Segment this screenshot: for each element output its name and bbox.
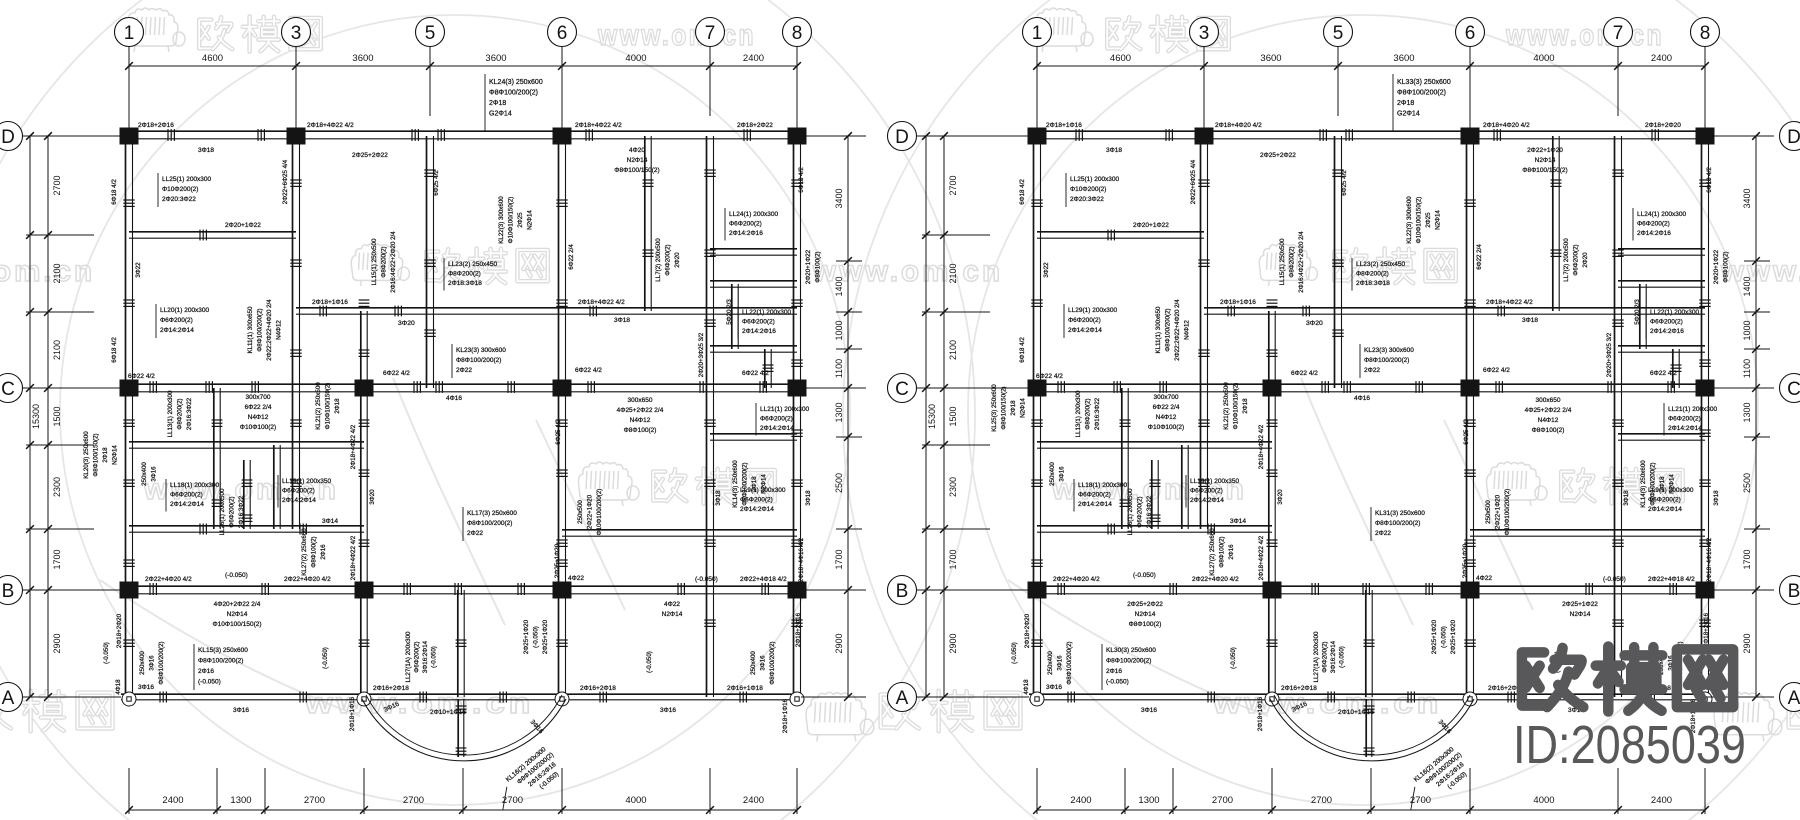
svg-text:2Φ22+6Φ25 4/4: 2Φ22+6Φ25 4/4 (282, 159, 289, 204)
beam grid 1 (125, 132, 127, 697)
svg-text:8: 8 (792, 23, 803, 44)
svg-text:2Φ18+4Φ22 4/2: 2Φ18+4Φ22 4/2 (350, 535, 357, 580)
svg-text:Φ8Φ100/200(2): Φ8Φ100/200(2) (1165, 308, 1172, 351)
svg-text:Φ6Φ200(2): Φ6Φ200(2) (1190, 488, 1223, 495)
svg-text:250x400: 250x400 (1047, 651, 1054, 675)
svg-text:2400: 2400 (743, 795, 764, 806)
grid bubble 7 (696, 18, 725, 47)
column at (129,590) (1028, 582, 1047, 599)
svg-text:Φ8Φ100/150(2): Φ8Φ100/150(2) (1522, 167, 1567, 174)
watermark tiles (125, 8, 757, 52)
svg-text:LL21(1) 200x300: LL21(1) 200x300 (1668, 406, 1718, 413)
svg-text:2Φ20+1Φ22: 2Φ20+1Φ22 (1133, 222, 1169, 229)
svg-text:B: B (2, 581, 15, 602)
svg-text:Φ8Φ100(2): Φ8Φ100(2) (1723, 251, 1730, 282)
svg-text:KL17(3) 250x600: KL17(3) 250x600 (467, 510, 517, 517)
svg-text:KL11(1) 300x650: KL11(1) 300x650 (247, 306, 254, 354)
svg-text:Φ10Φ100/200(2): Φ10Φ100/200(2) (596, 489, 603, 536)
grid line 5 stem (1337, 47, 1339, 117)
svg-text:2Φ20: 2Φ20 (1582, 252, 1589, 268)
beam grid C (1029, 383, 1709, 385)
svg-text:1000: 1000 (834, 320, 844, 340)
column at (562,388) (553, 380, 572, 397)
svg-text:Φ8Φ100/200(2): Φ8Φ100/200(2) (769, 641, 776, 684)
svg-text:1: 1 (1032, 23, 1043, 44)
svg-text:2Φ25+1Φ20: 2Φ25+1Φ20 (554, 543, 561, 578)
beam x277 (1181, 445, 1183, 529)
svg-text:(-0.050): (-0.050) (198, 679, 221, 686)
svg-text:B: B (896, 581, 909, 602)
svg-text:KL20(3) 250x600: KL20(3) 250x600 (83, 431, 90, 479)
svg-text:2Φ18+2Φ16: 2Φ18+2Φ16 (795, 612, 802, 647)
svg-text:250x400: 250x400 (1049, 462, 1056, 486)
svg-text:Φ10Φ100/150(2): Φ10Φ100/150(2) (325, 383, 332, 430)
svg-text:2Φ18: 2Φ18 (1397, 100, 1414, 107)
svg-text:3Φ20: 3Φ20 (1306, 320, 1323, 327)
svg-text:5Φ20 2/3: 5Φ20 2/3 (1634, 299, 1641, 325)
svg-text:3Φ22: 3Φ22 (1043, 262, 1050, 278)
svg-text:2Φ18+4Φ22 4/2: 2Φ18+4Φ22 4/2 (1258, 535, 1265, 580)
grid line 1 stem (128, 47, 130, 132)
svg-text:1100: 1100 (1742, 359, 1752, 378)
svg-text:LL22(1) 200x300: LL22(1) 200x300 (742, 309, 792, 316)
column at (364,388) (1263, 380, 1282, 397)
svg-text:Φ6Φ200(2): Φ6Φ200(2) (740, 497, 773, 504)
svg-text:1300: 1300 (1742, 402, 1752, 422)
svg-text:6Φ18 4/2: 6Φ18 4/2 (798, 167, 805, 193)
top dimension line (129, 65, 797, 67)
svg-text:Φ6Φ200(2): Φ6Φ200(2) (282, 488, 315, 495)
svg-text:Φ6Φ200(2): Φ6Φ200(2) (414, 641, 421, 672)
svg-text:2Φ22+1Φ20: 2Φ22+1Φ20 (1495, 494, 1502, 529)
svg-text:2Φ14:2Φ16: 2Φ14:2Φ16 (742, 328, 776, 335)
svg-text:2Φ22+6Φ25 4/4: 2Φ22+6Φ25 4/4 (1190, 159, 1197, 204)
svg-text:A: A (1788, 688, 1800, 709)
svg-text:(-0.050): (-0.050) (1441, 626, 1448, 648)
svg-text:2Φ18+4Φ16 4/2: 2Φ18+4Φ16 4/2 (1706, 537, 1713, 582)
grid bubble A (0, 683, 23, 712)
svg-text:3Φ18: 3Φ18 (1106, 147, 1122, 154)
beam y445 (1037, 441, 1272, 443)
column at (296,136) (287, 128, 306, 145)
svg-text:(-0.050): (-0.050) (1133, 572, 1156, 579)
svg-text:2Φ20+1Φ22: 2Φ20+1Φ22 (225, 222, 261, 229)
svg-text:Φ6Φ200(2): Φ6Φ200(2) (1668, 416, 1701, 423)
svg-text:LL9(1) 200x300: LL9(1) 200x300 (740, 487, 786, 494)
svg-text:Φ8Φ100/200(2): Φ8Φ100/200(2) (1066, 641, 1073, 684)
svg-text:6Φ18 4/2: 6Φ18 4/2 (1019, 179, 1026, 205)
beam grid 7 (706, 136, 708, 697)
svg-text:1000: 1000 (1742, 320, 1752, 340)
svg-text:2Φ18+1Φ16: 2Φ18+1Φ16 (1220, 299, 1256, 306)
svg-text:6: 6 (557, 23, 568, 44)
column at (364,590) (1263, 582, 1282, 599)
svg-text:2100: 2100 (948, 340, 958, 360)
svg-text:3Φ18: 3Φ18 (715, 490, 722, 506)
svg-text:6Φ22 2/4: 6Φ22 2/4 (1153, 404, 1180, 411)
beam x247 (1151, 460, 1153, 529)
svg-text:4600: 4600 (1110, 53, 1131, 64)
svg-text:2Φ16:4Φ22+2Φ20 2/4: 2Φ16:4Φ22+2Φ20 2/4 (1298, 231, 1305, 293)
svg-text:Φ8Φ100/200(2): Φ8Φ100/200(2) (1106, 658, 1151, 665)
svg-text:2Φ22: 2Φ22 (1364, 367, 1380, 374)
beam x648 (1552, 136, 1554, 311)
svg-text:1300: 1300 (1138, 795, 1159, 806)
beam y235 (129, 231, 296, 233)
beam y311 (1204, 307, 1705, 309)
column at (797,388) (788, 380, 807, 397)
column at (129,388) (120, 380, 139, 397)
svg-text:(-0.050): (-0.050) (431, 646, 438, 668)
svg-text:Φ8Φ200(2): Φ8Φ200(2) (177, 398, 184, 429)
svg-text:Φ6Φ200(2): Φ6Φ200(2) (170, 492, 203, 499)
grid bubble 1 (115, 18, 144, 47)
left dim chain (943, 136, 945, 697)
svg-text:N2Φ14: N2Φ14 (1570, 611, 1591, 618)
svg-text:C: C (1787, 379, 1800, 400)
svg-text:LL7(2) 200x500: LL7(2) 200x500 (1563, 238, 1570, 282)
svg-text:6Φ18 4/2: 6Φ18 4/2 (1706, 167, 1713, 193)
svg-text:4000: 4000 (1533, 795, 1554, 806)
beam y284 (1618, 280, 1705, 282)
pile circle at (129,A) (1030, 692, 1044, 706)
grid line 3 stem (295, 47, 297, 132)
svg-text:2Φ18+1Φ16: 2Φ18+1Φ16 (1257, 696, 1264, 731)
svg-text:Φ10Φ100/150(2): Φ10Φ100/150(2) (212, 621, 261, 628)
svg-text:3Φ18: 3Φ18 (1522, 317, 1538, 324)
svg-text:1700: 1700 (1742, 549, 1752, 569)
svg-text:2100: 2100 (948, 263, 958, 283)
beam grid 3 (1200, 136, 1202, 529)
svg-text:3Φ16: 3Φ16 (1059, 466, 1066, 482)
svg-text:2Φ22:2Φ22+4Φ20 2/4: 2Φ22:2Φ22+4Φ20 2/4 (266, 299, 273, 361)
svg-text:3Φ14: 3Φ14 (322, 518, 338, 525)
svg-text:Φ8Φ100(2): Φ8Φ100(2) (1532, 427, 1565, 434)
svg-text:Φ8Φ100/200(2): Φ8Φ100/200(2) (198, 658, 243, 665)
svg-text:KL23(3) 300x600: KL23(3) 300x600 (456, 347, 506, 354)
svg-text:1700: 1700 (834, 549, 844, 569)
svg-text:3Φ18: 3Φ18 (1623, 490, 1630, 506)
svg-text:8: 8 (1700, 23, 1711, 44)
svg-text:Φ8Φ100/150(2): Φ8Φ100/150(2) (614, 167, 659, 174)
beam x768 (1672, 349, 1674, 388)
grid bubble A (888, 683, 917, 712)
svg-text:2Φ22: 2Φ22 (1375, 530, 1391, 537)
svg-text:2Φ25+2Φ22: 2Φ25+2Φ22 (1127, 601, 1163, 608)
svg-text:2Φ16:3Φ22: 2Φ16:3Φ22 (1094, 397, 1101, 430)
beam y349 (710, 345, 797, 347)
svg-text:250x400: 250x400 (141, 462, 148, 486)
beam x247 (243, 460, 245, 529)
svg-text:2300: 2300 (52, 477, 62, 497)
svg-text:3600: 3600 (352, 53, 373, 64)
column at (129,136) (120, 128, 139, 145)
svg-text:LL24(1) 200x300: LL24(1) 200x300 (729, 211, 779, 218)
svg-text:LL19(1) 200x350: LL19(1) 200x350 (1190, 478, 1240, 485)
svg-text:2Φ18+4Φ20 4/2: 2Φ18+4Φ20 4/2 (1483, 122, 1530, 129)
svg-text:7: 7 (705, 23, 716, 44)
svg-text:KL23(3) 300x600: KL23(3) 300x600 (1364, 347, 1414, 354)
beam x461 (1365, 590, 1367, 697)
svg-text:15300: 15300 (927, 404, 937, 429)
svg-text:4Φ22: 4Φ22 (568, 575, 584, 582)
svg-text:D: D (895, 127, 909, 148)
grid line 1 stem (1036, 47, 1038, 132)
svg-text:Φ6Φ200(2): Φ6Φ200(2) (229, 496, 236, 527)
svg-text:2Φ14:2Φ14: 2Φ14:2Φ14 (1190, 497, 1224, 504)
svg-text:LL25(1) 200x300: LL25(1) 200x300 (1070, 176, 1120, 183)
grid bubble A right (1780, 683, 1800, 712)
column at (129,590) (120, 582, 139, 599)
svg-text:2Φ18+2Φ20: 2Φ18+2Φ20 (1645, 122, 1681, 129)
svg-text:2Φ18+2Φ16: 2Φ18+2Φ16 (138, 122, 174, 129)
grid bubble B right (1780, 576, 1800, 605)
beam y252 (1618, 248, 1705, 250)
svg-text:1500: 1500 (948, 406, 958, 426)
svg-text:KL22(3) 300x600: KL22(3) 300x600 (1406, 196, 1413, 244)
svg-text:Φ8Φ100/200(2): Φ8Φ100/200(2) (456, 357, 501, 364)
svg-text:Φ8Φ100(2): Φ8Φ100(2) (624, 427, 657, 434)
svg-text:Φ8Φ100/150(2): Φ8Φ100/150(2) (1001, 386, 1008, 429)
svg-text:2Φ22+4Φ20 4/2: 2Φ22+4Φ20 4/2 (284, 576, 331, 583)
grid line 8 stem (796, 47, 798, 132)
svg-text:2Φ25+1Φ20: 2Φ25+1Φ20 (542, 619, 549, 654)
beam grid 5 (426, 136, 428, 388)
svg-text:4Φ20: 4Φ20 (629, 147, 645, 154)
svg-text:2Φ25: 2Φ25 (1425, 212, 1432, 228)
column at (797,136) (788, 128, 807, 145)
svg-text:2Φ20+3Φ25 3/2: 2Φ20+3Φ25 3/2 (1606, 332, 1613, 377)
svg-text:4Φ25+2Φ22 2/4: 4Φ25+2Φ22 2/4 (1525, 407, 1572, 414)
beam y437 (1618, 433, 1705, 435)
beam x364 (1268, 311, 1270, 697)
svg-text:3Φ16: 3Φ16 (149, 655, 156, 671)
svg-text:N4Φ12: N4Φ12 (1538, 417, 1559, 424)
svg-text:LL18(1) 200x300: LL18(1) 200x300 (170, 482, 220, 489)
svg-text:2400: 2400 (1651, 53, 1672, 64)
svg-text:4600: 4600 (202, 53, 223, 64)
svg-text:2Φ10+1Φ16: 2Φ10+1Φ16 (430, 709, 466, 716)
svg-text:Φ6Φ200(2): Φ6Φ200(2) (1573, 244, 1580, 275)
svg-text:www.om.cn: www.om.cn (1505, 19, 1664, 52)
grid bubble C right (1780, 374, 1800, 403)
svg-text:2Φ18+4Φ20 4/2: 2Φ18+4Φ20 4/2 (1215, 122, 1262, 129)
svg-text:2Φ18+4Φ16 4/2: 2Φ18+4Φ16 4/2 (798, 537, 805, 582)
svg-text:2Φ25+1Φ20: 2Φ25+1Φ20 (1431, 619, 1438, 654)
svg-text:3: 3 (291, 23, 302, 44)
beam x217 (1121, 388, 1123, 529)
svg-text:2Φ18+4Φ22 4/2: 2Φ18+4Φ22 4/2 (307, 122, 354, 129)
svg-text:4Φ16: 4Φ16 (446, 395, 462, 402)
svg-text:(-0.050): (-0.050) (322, 647, 329, 669)
grid line 5 stem (429, 47, 431, 117)
svg-text:D: D (1, 127, 15, 148)
column at (562,136) (1461, 128, 1480, 145)
svg-text:2Φ18:3Φ18: 2Φ18:3Φ18 (1356, 280, 1390, 287)
svg-text:Φ8Φ100/200(2): Φ8Φ100/200(2) (467, 520, 512, 527)
svg-text:250x500: 250x500 (577, 500, 584, 524)
svg-text:KL33(3) 250x600: KL33(3) 250x600 (1397, 79, 1451, 86)
svg-text:Φ6Φ200(2): Φ6Φ200(2) (760, 416, 793, 423)
column at (364,388) (355, 380, 374, 397)
svg-text:2Φ14:2Φ14: 2Φ14:2Φ14 (1648, 506, 1682, 513)
svg-text:N4Φ12: N4Φ12 (248, 414, 269, 421)
site logo (1522, 648, 1583, 707)
svg-text:2Φ18+4Φ22 4/2: 2Φ18+4Φ22 4/2 (1486, 299, 1533, 306)
svg-text:2Φ25+1Φ20: 2Φ25+1Φ20 (1450, 619, 1457, 654)
svg-text:2400: 2400 (1651, 795, 1672, 806)
svg-text:N2Φ14: N2Φ14 (662, 611, 683, 618)
svg-text:2Φ22+4Φ20 4/2: 2Φ22+4Φ20 4/2 (1192, 576, 1239, 583)
svg-text:3Φ14: 3Φ14 (1230, 518, 1246, 525)
svg-text:KL31(3) 250x600: KL31(3) 250x600 (1375, 510, 1425, 517)
svg-text:5: 5 (425, 23, 436, 44)
svg-text:Φ10Φ100(2): Φ10Φ100(2) (1148, 424, 1184, 431)
svg-text:2Φ18: 2Φ18 (334, 398, 341, 414)
svg-text:KL14(3) 250x600: KL14(3) 250x600 (1640, 460, 1647, 508)
svg-text:3Φ18: 3Φ18 (614, 317, 630, 324)
column at (296,136) (1195, 128, 1214, 145)
svg-text:2Φ22+4Φ20 4/2: 2Φ22+4Φ20 4/2 (1053, 576, 1100, 583)
svg-text:3Φ20: 3Φ20 (1277, 489, 1284, 505)
svg-text:Φ6Φ200(2): Φ6Φ200(2) (1322, 641, 1329, 672)
svg-text:4000: 4000 (625, 53, 646, 64)
left dim chain (47, 136, 49, 697)
svg-text:300x700: 300x700 (246, 394, 271, 401)
svg-text:4Φ22: 4Φ22 (1476, 575, 1492, 582)
beam label KL block top (484, 74, 486, 131)
svg-text:6Φ22 4/2: 6Φ22 4/2 (1291, 370, 1318, 377)
svg-text:1700: 1700 (52, 549, 62, 569)
svg-text:6Φ22 2/4: 6Φ22 2/4 (1476, 244, 1483, 270)
grid bubble 6 (548, 18, 577, 47)
svg-text:6Φ22 4/2: 6Φ22 4/2 (575, 367, 602, 374)
svg-text:N2Φ14: N2Φ14 (227, 611, 248, 618)
beam y311 (296, 307, 797, 309)
svg-text:4Φ18: 4Φ18 (1023, 679, 1030, 695)
column at (562,590) (1461, 582, 1480, 599)
svg-text:www.om.cn: www.om.cn (1720, 255, 1800, 288)
beam y349 (1618, 345, 1705, 347)
svg-text:LL23(2) 250x450: LL23(2) 250x450 (448, 261, 498, 268)
svg-text:(-0.050): (-0.050) (1230, 647, 1237, 669)
svg-text:Φ6Φ200(2): Φ6Φ200(2) (729, 221, 762, 228)
pile circle at (129,A) (122, 692, 136, 706)
svg-text:N4Φ12: N4Φ12 (1156, 414, 1177, 421)
svg-text:3Φ16: 3Φ16 (760, 655, 767, 671)
svg-text:KL27(2) 250x600: KL27(2) 250x600 (301, 528, 308, 576)
svg-text:6Φ22 4/2: 6Φ22 4/2 (383, 370, 410, 377)
pile circle at (562,A) (1463, 692, 1477, 706)
beam y437 (710, 433, 797, 435)
svg-text:2Φ22:2Φ22+4Φ20 2/4: 2Φ22:2Φ22+4Φ20 2/4 (1174, 299, 1181, 361)
svg-text:2Φ25: 2Φ25 (517, 212, 524, 228)
svg-text:2400: 2400 (162, 795, 183, 806)
svg-text:KL25(3) 250x600: KL25(3) 250x600 (991, 384, 998, 432)
svg-text:3Φ20: 3Φ20 (369, 489, 376, 505)
beam x648 (644, 136, 646, 311)
beam y529 right (562, 529, 797, 531)
svg-text:Φ8Φ100/200(2): Φ8Φ100/200(2) (257, 308, 264, 351)
svg-text:Φ6Φ200(2): Φ6Φ200(2) (1648, 497, 1681, 504)
svg-text:2Φ14:2Φ14: 2Φ14:2Φ14 (160, 327, 194, 334)
svg-text:2Φ14:2Φ16: 2Φ14:2Φ16 (1637, 230, 1671, 237)
grid bubble 3 (1190, 18, 1219, 47)
svg-text:2Φ16: 2Φ16 (1106, 668, 1122, 675)
svg-text:2Φ10+1Φ16: 2Φ10+1Φ16 (1338, 709, 1374, 716)
svg-text:6Φ22 4/2: 6Φ22 4/2 (128, 373, 155, 380)
svg-text:2Φ16+2Φ18: 2Φ16+2Φ18 (373, 685, 409, 692)
beam grid 8 (1701, 132, 1703, 697)
svg-text:N2Φ14: N2Φ14 (1135, 611, 1156, 618)
svg-text:6Φ22 2/4: 6Φ22 2/4 (245, 404, 272, 411)
svg-text:300x650: 300x650 (1536, 397, 1561, 404)
svg-text:2Φ25+2Φ22: 2Φ25+2Φ22 (352, 152, 388, 159)
svg-text:3Φ16: 3Φ16 (1046, 684, 1062, 691)
svg-text:2Φ18+4Φ22 4/2: 2Φ18+4Φ22 4/2 (575, 122, 622, 129)
beam grid 6 (558, 136, 560, 697)
svg-text:KL21(2) 250x500: KL21(2) 250x500 (1223, 382, 1230, 430)
svg-text:2700: 2700 (304, 795, 325, 806)
svg-text:KL27(2) 250x600: KL27(2) 250x600 (1209, 528, 1216, 576)
svg-text:2Φ22+1Φ20: 2Φ22+1Φ20 (587, 494, 594, 529)
beam y284 (710, 280, 797, 282)
beam x735 (731, 284, 733, 349)
svg-text:2Φ14:2Φ16: 2Φ14:2Φ16 (1650, 328, 1684, 335)
svg-text:Φ8Φ200(2): Φ8Φ200(2) (448, 271, 481, 278)
svg-text:LL23(2) 250x450: LL23(2) 250x450 (1356, 261, 1406, 268)
beam grid B (1029, 585, 1709, 587)
svg-text:ID:2085039: ID:2085039 (1513, 715, 1746, 775)
svg-text:B: B (1788, 581, 1800, 602)
grid bubble 6 (1456, 18, 1485, 47)
beam label KL block top (1392, 74, 1394, 131)
svg-text:250x400: 250x400 (750, 651, 757, 675)
svg-text:Φ8Φ100(2): Φ8Φ100(2) (1129, 621, 1162, 628)
svg-text:15300: 15300 (31, 404, 41, 429)
svg-text:LL20(1) 200x300: LL20(1) 200x300 (160, 307, 210, 314)
svg-text:Φ8Φ100(2): Φ8Φ100(2) (815, 251, 822, 282)
grid line 7 stem (709, 47, 711, 117)
beam grid 1 (1033, 132, 1035, 697)
svg-text:3Φ16: 3Φ16 (138, 684, 154, 691)
svg-text:N2Φ14: N2Φ14 (1020, 398, 1027, 418)
svg-text:4Φ20+2Φ22 2/4: 4Φ20+2Φ22 2/4 (214, 601, 261, 608)
svg-text:2700: 2700 (948, 175, 958, 195)
beam y252 (710, 248, 797, 250)
svg-text:1300: 1300 (230, 795, 251, 806)
svg-text:Φ10Φ200(2): Φ10Φ200(2) (1070, 186, 1106, 193)
grid bubble 8 (1691, 18, 1720, 47)
svg-text:C: C (1, 379, 15, 400)
beam grid 7 (1614, 136, 1616, 697)
svg-text:Φ10Φ100/200(2): Φ10Φ100/200(2) (1504, 489, 1511, 536)
svg-text:2Φ18+2Φ22: 2Φ18+2Φ22 (737, 122, 773, 129)
svg-text:(-0.050): (-0.050) (1339, 646, 1346, 668)
column at (129,388) (1028, 380, 1047, 397)
svg-text:3Φ16:2Φ14: 3Φ16:2Φ14 (1330, 640, 1337, 673)
svg-text:2Φ14:2Φ14: 2Φ14:2Φ14 (1668, 425, 1702, 432)
svg-text:KL30(3) 250x600: KL30(3) 250x600 (1106, 647, 1156, 654)
svg-text:Φ10Φ100(2): Φ10Φ100(2) (240, 424, 276, 431)
beam y529 right (1470, 529, 1705, 531)
svg-text:2Φ18: 2Φ18 (489, 100, 506, 107)
svg-text:3Φ16: 3Φ16 (660, 707, 676, 714)
svg-text:2Φ25+1Φ20: 2Φ25+1Φ20 (1462, 543, 1469, 578)
svg-text:LL26(1) 200x500: LL26(1) 200x500 (1127, 488, 1134, 535)
svg-text:A: A (896, 688, 909, 709)
svg-text:3600: 3600 (485, 53, 506, 64)
